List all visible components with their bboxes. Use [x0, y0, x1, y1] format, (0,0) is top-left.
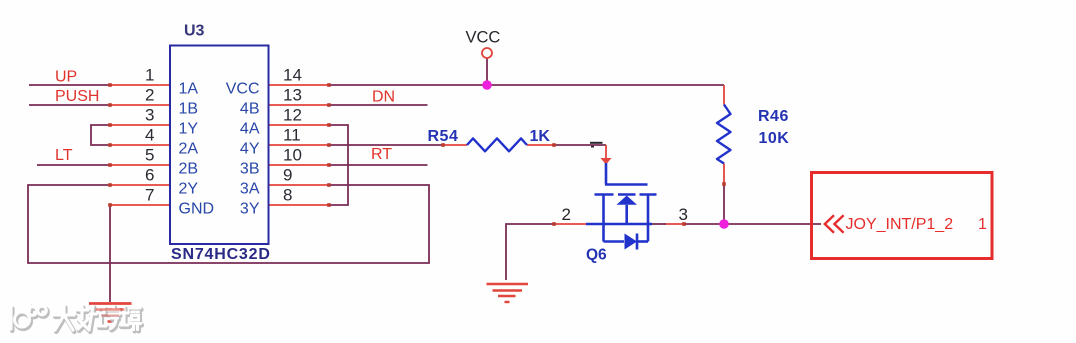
svg-text:1A: 1A — [179, 81, 199, 98]
svg-text:2: 2 — [562, 205, 571, 224]
svg-text:2Y: 2Y — [179, 181, 199, 198]
svg-text:VCC: VCC — [466, 29, 501, 47]
svg-text:5: 5 — [145, 146, 154, 165]
svg-text:1B: 1B — [179, 101, 199, 118]
svg-text:10: 10 — [283, 146, 302, 165]
svg-text:2A: 2A — [179, 141, 199, 158]
svg-text:2: 2 — [145, 86, 154, 105]
svg-text:4: 4 — [145, 126, 154, 145]
svg-text:4B: 4B — [240, 101, 260, 118]
svg-text:DN: DN — [372, 89, 395, 106]
svg-text:3Y: 3Y — [240, 201, 260, 218]
svg-text:11: 11 — [283, 126, 301, 145]
svg-text:LT: LT — [55, 147, 73, 164]
svg-text:3: 3 — [679, 205, 688, 224]
svg-text:4Y: 4Y — [240, 141, 260, 158]
svg-text:7: 7 — [145, 186, 154, 205]
svg-text:RT: RT — [371, 146, 392, 163]
svg-text:VCC: VCC — [226, 81, 260, 98]
svg-text:6: 6 — [145, 166, 154, 185]
svg-text:2B: 2B — [179, 161, 199, 178]
svg-text:14: 14 — [283, 66, 302, 85]
svg-text:3: 3 — [145, 106, 154, 125]
svg-text:9: 9 — [283, 166, 292, 185]
svg-text:JOY_INT/P1_2: JOY_INT/P1_2 — [846, 216, 954, 233]
svg-text:4A: 4A — [240, 121, 260, 138]
svg-text:Q6: Q6 — [586, 247, 607, 264]
svg-text:1: 1 — [978, 216, 987, 233]
svg-text:R54: R54 — [428, 128, 459, 145]
svg-text:U3: U3 — [184, 23, 205, 40]
svg-text:1Y: 1Y — [179, 121, 199, 138]
svg-text:UP: UP — [55, 69, 77, 86]
svg-text:10K: 10K — [759, 130, 790, 147]
svg-text:8: 8 — [283, 186, 292, 205]
svg-text:1K: 1K — [530, 128, 551, 145]
svg-text:13: 13 — [283, 86, 302, 105]
svg-text:R46: R46 — [758, 108, 789, 125]
svg-text:GND: GND — [179, 201, 215, 218]
svg-text:3B: 3B — [240, 161, 260, 178]
svg-text:PUSH: PUSH — [55, 88, 99, 105]
svg-text:12: 12 — [283, 106, 302, 125]
svg-text:1: 1 — [145, 66, 154, 85]
svg-text:SN74HC32D: SN74HC32D — [171, 246, 271, 263]
svg-text:3A: 3A — [240, 181, 260, 198]
